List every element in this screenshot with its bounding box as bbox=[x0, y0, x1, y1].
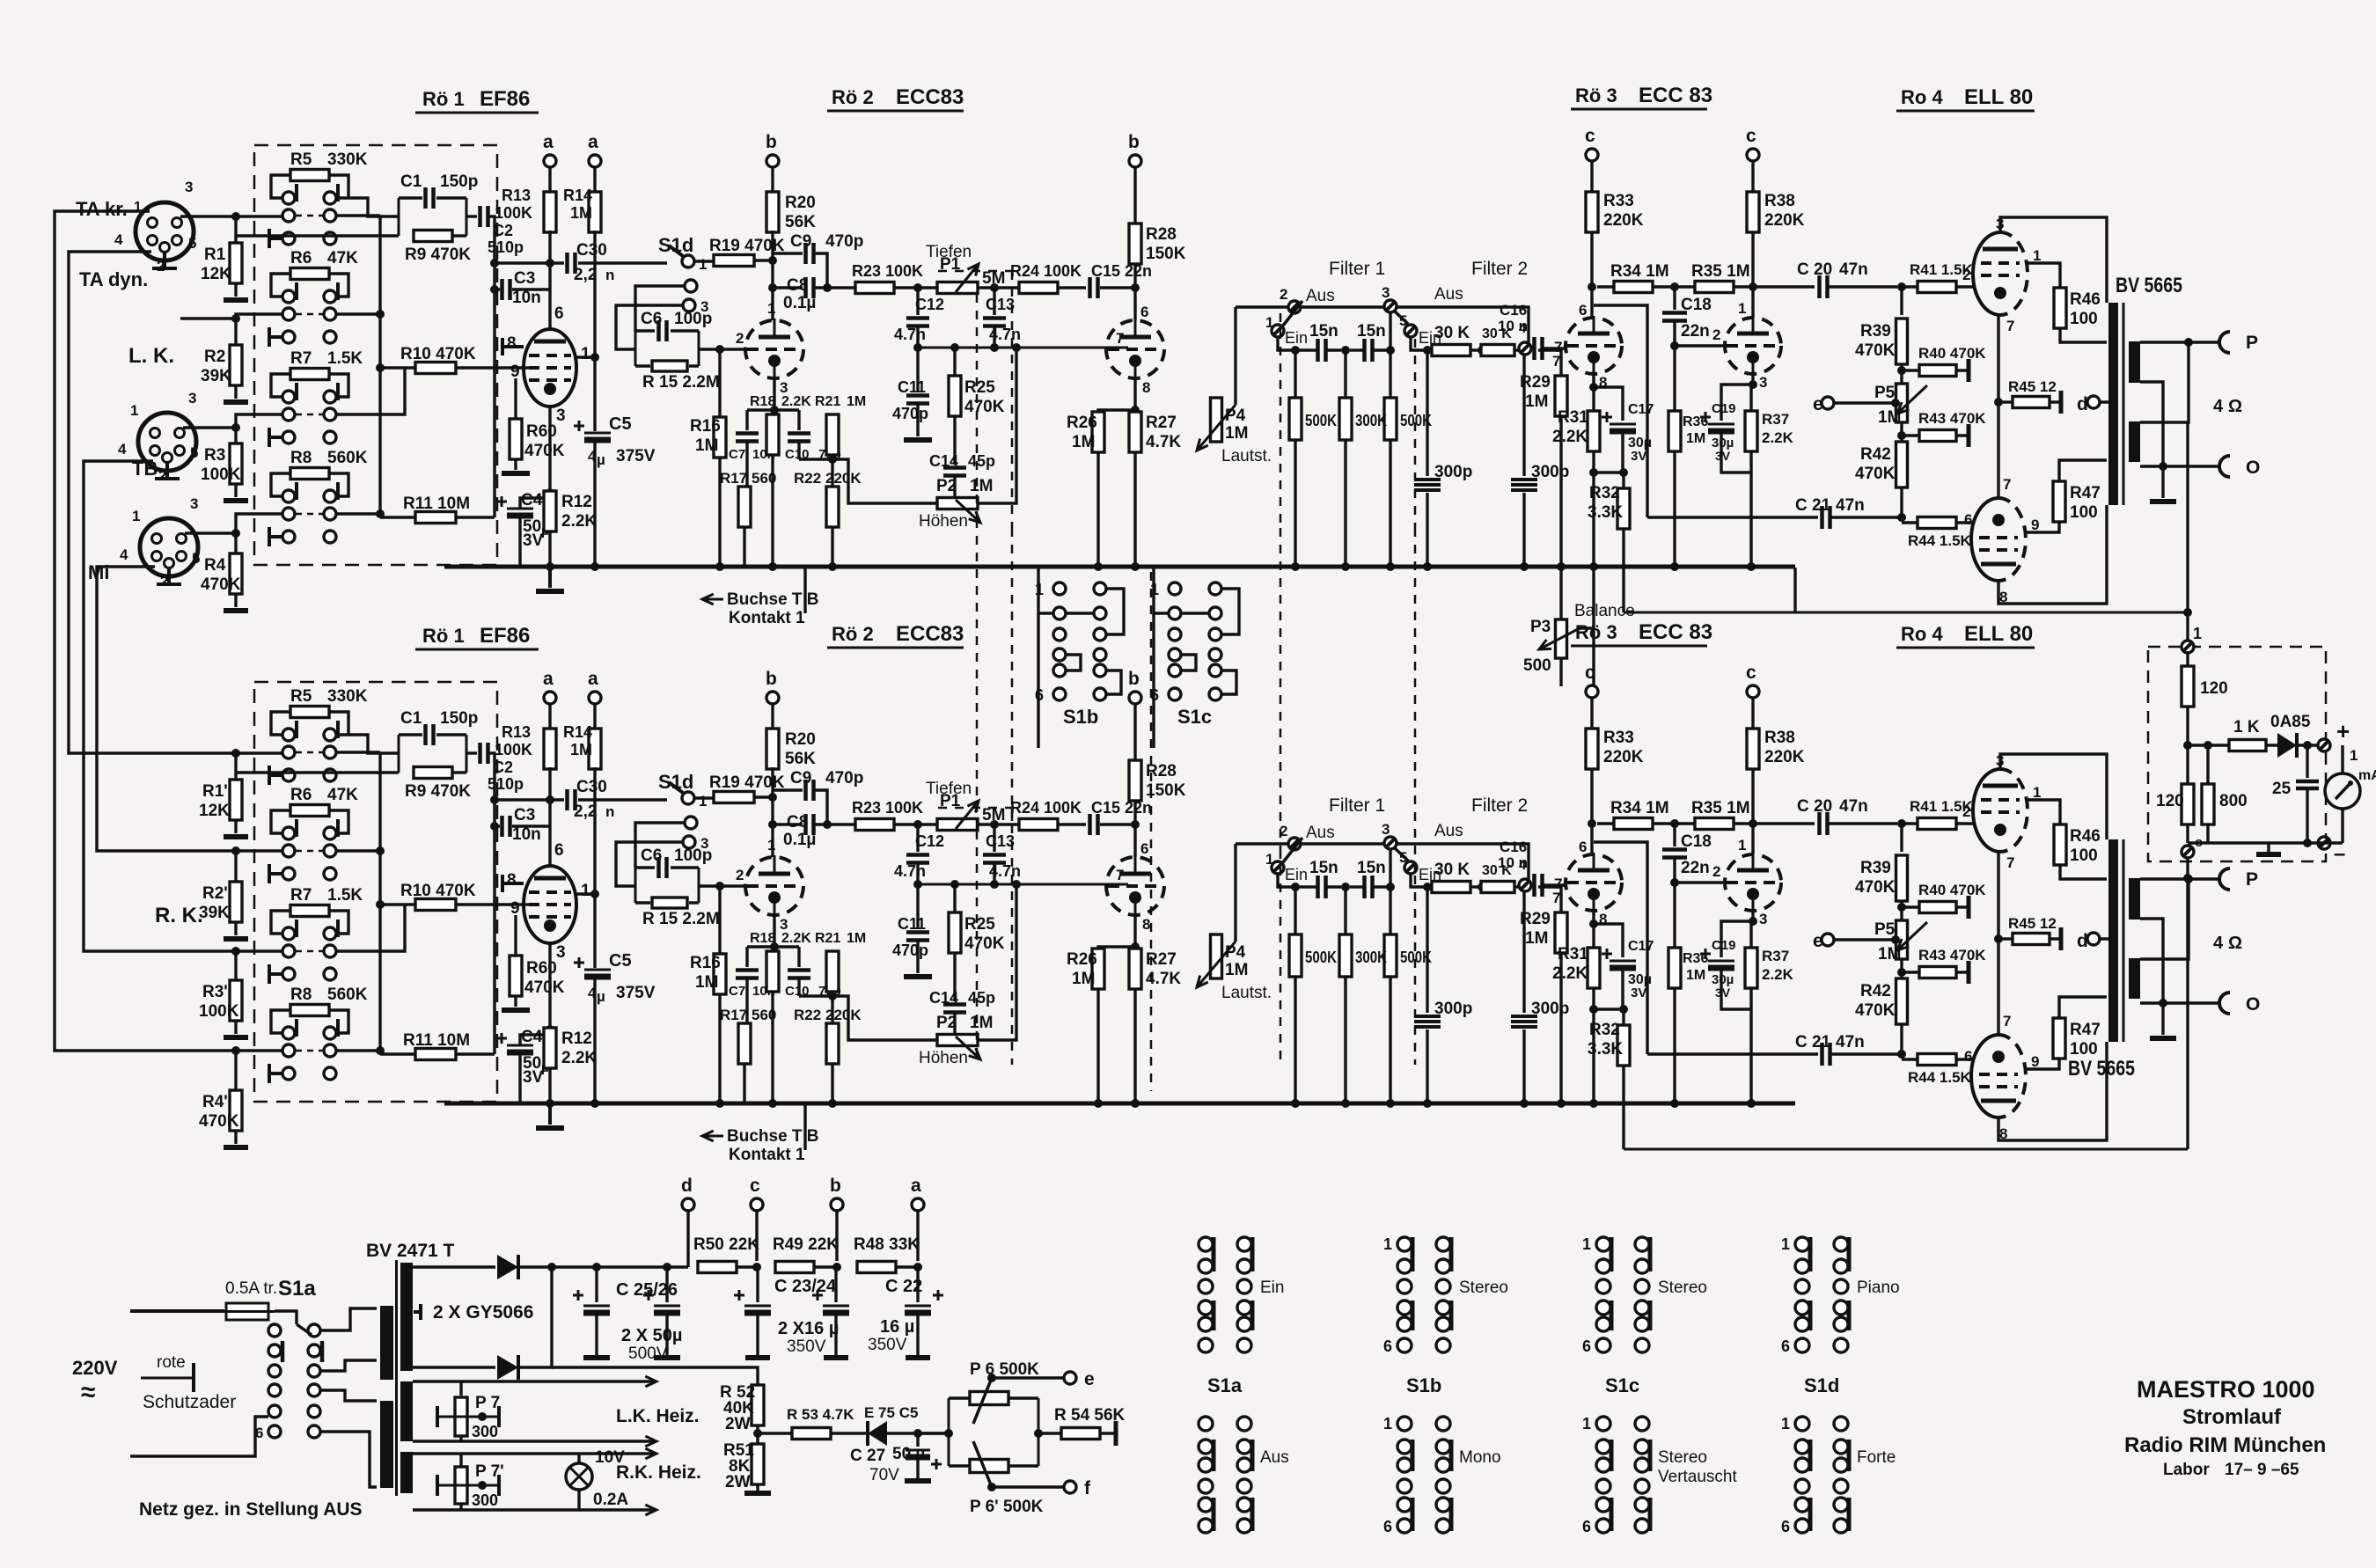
wire bbox=[2059, 460, 2107, 482]
wire bbox=[799, 458, 832, 460]
wire bbox=[686, 1211, 689, 1267]
resistor R1' 12K bbox=[230, 780, 242, 820]
svg-text:1: 1 bbox=[1383, 1235, 1392, 1253]
svg-text:1: 1 bbox=[1738, 300, 1746, 317]
svg-text:1M: 1M bbox=[847, 394, 866, 409]
svg-text:0A85: 0A85 bbox=[2270, 713, 2311, 731]
svg-text:≈: ≈ bbox=[81, 1378, 95, 1407]
svg-text:C4: C4 bbox=[521, 491, 543, 509]
wire heater R.K. lower bbox=[413, 1508, 653, 1511]
svg-text:S1d: S1d bbox=[1804, 1374, 1839, 1396]
transformer secondary winding lower bbox=[2129, 421, 2140, 462]
wire bbox=[2100, 400, 2108, 403]
svg-text:R28: R28 bbox=[1146, 225, 1177, 244]
svg-text:7: 7 bbox=[1554, 339, 1562, 355]
svg-text:2W: 2W bbox=[725, 1415, 751, 1433]
svg-text:3: 3 bbox=[190, 495, 198, 512]
svg-text:S1a: S1a bbox=[1207, 1374, 1243, 1396]
switch S1c contact row 2 bbox=[1169, 607, 1181, 619]
svg-text:Stereo: Stereo bbox=[1658, 1279, 1707, 1297]
output transformer BV5665 primary winding bbox=[2108, 303, 2118, 505]
svg-text:0.5A tr.: 0.5A tr. bbox=[225, 1279, 277, 1298]
svg-text:P 6' 500K: P 6' 500K bbox=[970, 1498, 1044, 1516]
svg-text:a: a bbox=[543, 132, 554, 152]
svg-text:R29: R29 bbox=[1520, 373, 1551, 392]
wire bbox=[755, 1211, 758, 1261]
svg-text:0.2A: 0.2A bbox=[593, 1491, 628, 1509]
input connector TB (DIN socket) bbox=[138, 413, 196, 471]
switch S1c contact row 4 bbox=[1169, 648, 1181, 661]
wire bbox=[459, 1503, 462, 1510]
potentiometer P6' 500K bbox=[949, 1464, 971, 1467]
switch contact pair bbox=[282, 490, 295, 502]
switch S1b contact row 6 bbox=[1053, 688, 1066, 700]
mechanical gang dashed line Filter 1 bbox=[1280, 313, 1282, 528]
wire DC to R52 bbox=[552, 1367, 758, 1385]
wire bbox=[514, 378, 517, 419]
svg-text:R11 10M: R11 10M bbox=[403, 495, 470, 513]
svg-text:3V: 3V bbox=[523, 531, 544, 550]
resistor R26 1M bbox=[1092, 412, 1104, 452]
svg-text:R45 12: R45 12 bbox=[2008, 378, 2057, 395]
svg-text:1: 1 bbox=[1265, 314, 1273, 331]
svg-text:800: 800 bbox=[2219, 792, 2248, 810]
svg-text:R18: R18 bbox=[750, 394, 775, 409]
svg-text:S1c: S1c bbox=[1177, 706, 1212, 728]
svg-text:70V: 70V bbox=[869, 1466, 899, 1484]
svg-text:2: 2 bbox=[160, 573, 168, 590]
svg-text:R12: R12 bbox=[561, 493, 592, 511]
svg-text:C18: C18 bbox=[1681, 296, 1712, 314]
potentiometer P5 1M bbox=[1896, 384, 1908, 422]
wire bbox=[993, 326, 995, 348]
svg-text:4: 4 bbox=[114, 231, 123, 248]
wire anode bbox=[548, 304, 551, 329]
wire bbox=[520, 498, 550, 509]
resistor R47 100 bbox=[2053, 481, 2065, 522]
triode Rö2b ECC83 bbox=[1106, 320, 1164, 378]
wire bbox=[1902, 521, 1918, 524]
svg-text:R10 470K: R10 470K bbox=[400, 345, 476, 363]
rectifier diode GY5066 lower bbox=[497, 1355, 518, 1380]
svg-text:100p: 100p bbox=[674, 310, 712, 328]
resistor R10 470K bbox=[415, 363, 456, 374]
capacitor C7 10n bbox=[736, 434, 759, 442]
wire bbox=[1647, 516, 1818, 518]
mains transformer heater winding L.K. bbox=[400, 1381, 413, 1441]
resistor R6 47K bbox=[290, 268, 329, 280]
svg-text:2 X GY5066: 2 X GY5066 bbox=[433, 1302, 533, 1323]
wire bbox=[336, 214, 380, 216]
wire bbox=[2186, 824, 2189, 843]
svg-text:4: 4 bbox=[2213, 397, 2224, 416]
svg-text:R13: R13 bbox=[502, 187, 531, 204]
resistor R42 470K bbox=[1896, 442, 1908, 487]
switch contact pair bbox=[282, 391, 295, 403]
resistor R44 1.5K bbox=[1918, 517, 1956, 529]
svg-text:R26: R26 bbox=[1067, 414, 1097, 432]
input connector Mi (DIN socket) bbox=[140, 518, 198, 576]
switch detail S1b lower bank bbox=[1397, 1417, 1412, 1431]
electrolytic capacitor C22 16u 350V bbox=[916, 1267, 919, 1302]
wire bbox=[593, 231, 596, 431]
wire bbox=[694, 260, 714, 262]
wire to grid of Rö2b bbox=[918, 347, 1128, 349]
potentiometer P4 1M (Lautst.) bbox=[1211, 398, 1222, 442]
svg-text:R27: R27 bbox=[1146, 414, 1177, 432]
wire Mi to bottom channel bbox=[97, 567, 282, 851]
divider chain wire bbox=[1900, 287, 1903, 315]
svg-text:Schutzader: Schutzader bbox=[143, 1392, 236, 1412]
wire bbox=[953, 348, 956, 376]
capacitor C6 100p with parallel resistor R15 2.2M bbox=[634, 331, 637, 366]
svg-text:c: c bbox=[1746, 126, 1756, 146]
svg-text:1 K: 1 K bbox=[2233, 718, 2260, 736]
wire cathode rail bbox=[1997, 315, 1999, 498]
svg-text:Ein: Ein bbox=[1285, 329, 1308, 347]
svg-text:1M: 1M bbox=[695, 436, 718, 455]
svg-text:470K: 470K bbox=[199, 1112, 239, 1131]
svg-text:a: a bbox=[911, 1176, 921, 1196]
wire bbox=[953, 476, 956, 499]
wire bbox=[1956, 285, 1973, 288]
wire bbox=[1058, 286, 1086, 289]
wire bbox=[978, 286, 1020, 289]
wire bbox=[1594, 387, 1623, 421]
mechanical gang dashed line S1c bbox=[1150, 572, 1153, 1091]
electrolytic capacitor C25 2x50u 500V bbox=[595, 1267, 598, 1302]
wire bbox=[1751, 161, 1754, 193]
svg-text:R34 1M: R34 1M bbox=[1610, 262, 1669, 281]
resistor R5 330K bbox=[290, 170, 329, 181]
wire row5 to row6 bbox=[1221, 670, 1236, 694]
node b (supply terminal) bbox=[766, 155, 779, 167]
wire HV bottom tap to rectifier bbox=[413, 1366, 495, 1368]
switch contact 5 (Filter 2 Ein) bbox=[1404, 325, 1417, 337]
wire bbox=[548, 289, 551, 304]
switch detail S1d lower bank bbox=[1795, 1417, 1809, 1431]
terminal + (meter) bbox=[2318, 739, 2330, 751]
terminal a (supply) bbox=[912, 1198, 924, 1211]
switch contact 4 bbox=[1519, 342, 1531, 355]
wire bbox=[1721, 385, 1753, 421]
ground bbox=[548, 567, 552, 588]
svg-text:47K: 47K bbox=[327, 249, 358, 267]
svg-text:EF86: EF86 bbox=[480, 87, 530, 111]
resistor R4' 470K bbox=[230, 1090, 242, 1131]
wire TA dyn to row 2 bbox=[180, 314, 282, 319]
wire to feedback line bbox=[1622, 528, 1624, 612]
svg-text:MAESTRO 1000: MAESTRO 1000 bbox=[2137, 1376, 2315, 1403]
svg-text:220K: 220K bbox=[1764, 211, 1805, 230]
potentiometer P6 500K bbox=[948, 1398, 950, 1466]
resistor R22 220K bbox=[826, 487, 839, 527]
wire bbox=[745, 410, 748, 430]
wire bbox=[797, 442, 800, 459]
resistor R40 470K with stop bbox=[1902, 369, 1919, 371]
wire node bbox=[489, 216, 495, 517]
wire TB to top matrix bbox=[183, 414, 282, 428]
svg-text:TA dyn.: TA dyn. bbox=[79, 268, 148, 290]
wire bbox=[1234, 307, 1236, 405]
svg-text:R3: R3 bbox=[204, 446, 225, 465]
mechanical gang dashed continuation S1d bbox=[1011, 528, 1014, 829]
svg-text:6: 6 bbox=[1140, 304, 1148, 320]
wire bbox=[380, 516, 415, 518]
wire bbox=[1592, 375, 1595, 412]
resistor R53 4.7K bbox=[792, 1428, 831, 1440]
wire bbox=[1721, 431, 1751, 473]
svg-text:300: 300 bbox=[472, 1491, 498, 1509]
switch contact pair bbox=[282, 209, 295, 222]
wire bbox=[756, 1484, 759, 1491]
switch contact pair bbox=[282, 192, 295, 204]
resistor R45 12 bbox=[1998, 400, 2012, 403]
ground bbox=[2267, 843, 2270, 852]
wire bbox=[743, 527, 745, 567]
wire TA to top matrix bbox=[180, 215, 282, 217]
svg-text:C6: C6 bbox=[641, 310, 662, 328]
svg-text:6: 6 bbox=[1582, 1518, 1591, 1535]
wire bbox=[1580, 569, 1594, 628]
svg-text:500: 500 bbox=[1523, 656, 1551, 675]
wire feed from bus bbox=[1038, 568, 1052, 613]
svg-text:R4': R4' bbox=[202, 1093, 228, 1111]
wire bbox=[1522, 493, 1525, 567]
svg-text:15n: 15n bbox=[1309, 322, 1338, 341]
wire bbox=[1133, 264, 1136, 320]
wire bbox=[234, 851, 237, 882]
node b (supply terminal) bbox=[1129, 155, 1141, 167]
svg-text:510p: 510p bbox=[488, 238, 524, 256]
svg-text:300K: 300K bbox=[1355, 412, 1387, 429]
svg-text:2.2K: 2.2K bbox=[1762, 429, 1794, 446]
wire bbox=[635, 286, 685, 331]
svg-text:9: 9 bbox=[2031, 517, 2039, 533]
wire bbox=[1514, 348, 1520, 351]
wire bbox=[1426, 493, 1428, 567]
svg-text:12K: 12K bbox=[199, 802, 230, 820]
svg-text:Radio RIM München: Radio RIM München bbox=[2124, 1433, 2326, 1457]
svg-text:5: 5 bbox=[1399, 312, 1407, 329]
wire screen/anode to R46 bbox=[2026, 263, 2060, 289]
svg-text:1: 1 bbox=[1781, 1235, 1790, 1253]
svg-text:R60: R60 bbox=[526, 422, 557, 441]
svg-text:R37: R37 bbox=[1762, 411, 1789, 428]
svg-text:17– 9 –65: 17– 9 –65 bbox=[2225, 1461, 2299, 1479]
wire bbox=[1831, 516, 1898, 518]
svg-text:b: b bbox=[830, 1176, 841, 1196]
resistor R46 100 bbox=[2054, 288, 2066, 328]
wire bbox=[456, 516, 495, 518]
svg-text:15n: 15n bbox=[1357, 322, 1386, 341]
wire bbox=[992, 1485, 1064, 1488]
wire cathode bbox=[548, 407, 551, 493]
wire bbox=[718, 349, 721, 417]
wire row5 to row6 bbox=[1106, 670, 1121, 694]
switch contact pair bbox=[282, 408, 295, 421]
node a (supply terminal) bbox=[544, 155, 556, 167]
wire bbox=[1038, 1432, 1061, 1434]
switch contact with stop bar bbox=[282, 531, 295, 543]
svg-text:1M: 1M bbox=[570, 204, 592, 222]
hum pot P7' 300 bbox=[459, 1454, 462, 1466]
switch contact pair bbox=[282, 508, 295, 520]
svg-text:Rö 2: Rö 2 bbox=[832, 86, 874, 108]
mains switch S1a contacts bbox=[268, 1324, 281, 1337]
resistor R29 1M bbox=[1555, 376, 1567, 416]
wire bbox=[1751, 232, 1754, 318]
mechanical gang dashed continuation P1 bbox=[976, 519, 979, 831]
resistor 30K (Filter 2) bbox=[1481, 345, 1514, 356]
svg-text:100: 100 bbox=[2070, 310, 2098, 328]
wire bbox=[380, 366, 415, 369]
terminal o (meter) bbox=[2182, 846, 2194, 858]
svg-text:2 X 50µ: 2 X 50µ bbox=[621, 1326, 682, 1345]
wire bbox=[456, 366, 524, 369]
diode OA85 bbox=[2277, 733, 2297, 758]
svg-text:470p: 470p bbox=[892, 405, 928, 422]
svg-text:1: 1 bbox=[699, 256, 707, 273]
svg-text:45p: 45p bbox=[968, 452, 995, 470]
svg-text:R39: R39 bbox=[1860, 322, 1891, 341]
resistor 500K (Filter 1) bbox=[1294, 350, 1296, 398]
svg-text:350V: 350V bbox=[868, 1336, 907, 1354]
svg-text:E 75 C5: E 75 C5 bbox=[864, 1404, 918, 1421]
wire bbox=[1592, 628, 1595, 686]
svg-text:Aus: Aus bbox=[1306, 287, 1335, 305]
switch S1b contact row 5 bbox=[1053, 664, 1066, 677]
svg-text:56K: 56K bbox=[785, 213, 816, 231]
mains transformer core bbox=[395, 1260, 398, 1496]
resistor R18 2.2K bbox=[766, 414, 779, 455]
svg-text:C8: C8 bbox=[787, 276, 808, 295]
wire bbox=[271, 274, 291, 297]
wire negative feedback upper channel bbox=[1624, 612, 2188, 614]
svg-text:Aus: Aus bbox=[1434, 285, 1463, 304]
resistor R54 56K bbox=[1061, 1428, 1100, 1440]
svg-text:50 µ: 50 µ bbox=[892, 1445, 925, 1463]
wire bbox=[234, 428, 237, 443]
svg-text:2W: 2W bbox=[725, 1473, 751, 1491]
resistor R11 10M bbox=[415, 512, 456, 524]
wire S1b to lower channel bbox=[1037, 613, 1039, 748]
svg-text:R4: R4 bbox=[204, 556, 226, 575]
svg-text:6: 6 bbox=[554, 304, 564, 323]
wire bbox=[1344, 440, 1346, 567]
resistor R49 22K bbox=[775, 1262, 814, 1273]
svg-text:P2: P2 bbox=[936, 477, 957, 495]
svg-text:3: 3 bbox=[1382, 284, 1390, 301]
svg-text:7: 7 bbox=[2006, 318, 2014, 334]
svg-text:4: 4 bbox=[120, 546, 128, 563]
node a (supply terminal) bbox=[589, 155, 601, 167]
svg-text:S1b: S1b bbox=[1406, 1374, 1441, 1396]
svg-text:n: n bbox=[605, 267, 614, 283]
svg-text:P 7: P 7 bbox=[475, 1394, 500, 1412]
wire bbox=[1389, 312, 1391, 350]
svg-text:BV 5665: BV 5665 bbox=[2068, 1057, 2135, 1081]
svg-text:120: 120 bbox=[2200, 679, 2228, 698]
svg-text:R38: R38 bbox=[1764, 192, 1795, 210]
svg-text:R46: R46 bbox=[2070, 290, 2101, 309]
switch detail S1d upper bank bbox=[1795, 1237, 1809, 1251]
input connector TA kr./TA dyn. (DIN socket) bbox=[136, 202, 194, 260]
svg-text:O: O bbox=[2246, 458, 2260, 478]
wire anode loop upper bbox=[2000, 217, 2107, 303]
svg-text:Kontakt 1: Kontakt 1 bbox=[729, 609, 805, 627]
svg-text:R 53 4.7K: R 53 4.7K bbox=[787, 1406, 854, 1423]
wire 4ohm tap bbox=[2140, 342, 2189, 422]
wire S1c to lower channel bbox=[1152, 613, 1155, 748]
svg-text:2: 2 bbox=[1712, 326, 1720, 343]
wire grid bbox=[699, 348, 744, 350]
svg-text:4.7K: 4.7K bbox=[1146, 433, 1181, 451]
svg-text:Aus: Aus bbox=[1260, 1448, 1289, 1467]
wire bbox=[1673, 321, 1676, 346]
svg-text:c: c bbox=[750, 1176, 760, 1196]
svg-text:100K: 100K bbox=[495, 204, 532, 222]
svg-text:R20: R20 bbox=[785, 194, 816, 212]
electrolytic capacitor C24 bbox=[834, 1267, 837, 1302]
resistor 800 bbox=[2188, 744, 2208, 746]
wire meter box bottom bbox=[2188, 841, 2343, 844]
wire bbox=[831, 1432, 868, 1434]
wire bbox=[894, 286, 938, 289]
wire bbox=[234, 951, 237, 980]
svg-text:120: 120 bbox=[2156, 792, 2184, 810]
wire to transformer primary bbox=[320, 1308, 377, 1330]
wire bbox=[1411, 337, 1427, 350]
svg-text:R14: R14 bbox=[563, 187, 592, 204]
svg-text:7: 7 bbox=[2003, 476, 2011, 493]
svg-text:P: P bbox=[2246, 333, 2258, 353]
svg-text:6: 6 bbox=[1781, 1337, 1790, 1355]
svg-text:2.2K: 2.2K bbox=[781, 394, 811, 409]
terminal d (supply) bbox=[682, 1198, 694, 1211]
svg-text:R35 1M: R35 1M bbox=[1691, 262, 1750, 281]
mechanical gang dashed line S1d bbox=[1011, 271, 1014, 528]
svg-text:P3: P3 bbox=[1530, 618, 1551, 636]
resistor R21 1M bbox=[826, 414, 839, 455]
svg-text:470K: 470K bbox=[964, 398, 1005, 416]
wire bbox=[1673, 451, 1676, 567]
svg-text:Ω: Ω bbox=[2228, 397, 2242, 416]
switch detail S1a upper bank bbox=[1199, 1237, 1213, 1251]
switch S1d contact bbox=[685, 280, 697, 292]
svg-text:P5: P5 bbox=[1874, 384, 1896, 402]
node e (terminal) bbox=[1822, 397, 1834, 409]
resistor 500K (Filter 1) bbox=[1389, 350, 1391, 398]
capacitor 15n (Filter 1) bbox=[1310, 348, 1317, 351]
resistor R37 2.2K bbox=[1749, 385, 1752, 412]
svg-text:330K: 330K bbox=[327, 150, 368, 169]
svg-text:375V: 375V bbox=[616, 447, 656, 465]
wire meter trunk bbox=[2186, 422, 2189, 645]
switch S1b contact row 4 bbox=[1053, 648, 1066, 661]
wire bbox=[1470, 348, 1482, 351]
switch S1c contact row 5 bbox=[1169, 664, 1181, 677]
resistor R25 470K bbox=[949, 376, 961, 416]
wire bbox=[718, 458, 721, 567]
wire TA kr to bottom channel bbox=[55, 211, 282, 1051]
wire bbox=[758, 1432, 792, 1434]
wire bbox=[2306, 789, 2308, 843]
resistor R16 1M bbox=[714, 417, 726, 458]
mains transformer heater winding R.K. bbox=[400, 1452, 413, 1493]
svg-text:C1: C1 bbox=[400, 172, 422, 191]
wire bbox=[737, 1265, 757, 1268]
